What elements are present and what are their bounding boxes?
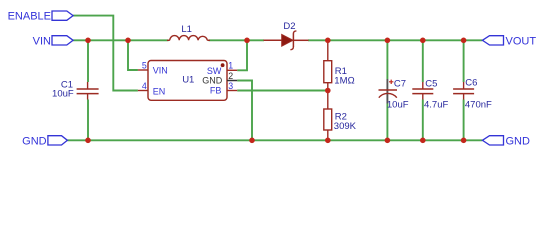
junction GND-C6: [461, 138, 467, 144]
wire C7 branch bottom: [386, 104, 388, 141]
junction GND-pin2: [249, 138, 255, 144]
junction VOUT-C7: [385, 38, 391, 44]
diode D2 (schottky): [264, 21, 309, 50]
IC U1 body: [148, 61, 227, 101]
junction VOUT-C6: [461, 38, 467, 44]
junction VOUT-C5: [420, 38, 426, 44]
junction VIN-pin5: [125, 38, 131, 44]
svg-text:4.7uF: 4.7uF: [424, 100, 448, 111]
port VIN: [33, 35, 73, 47]
capacitor C1: [52, 79, 99, 99]
svg-text:VIN: VIN: [33, 35, 51, 47]
capacitor C6: [453, 78, 492, 111]
svg-text:3: 3: [228, 81, 233, 91]
junction GND-C1: [85, 138, 91, 144]
wire C6 branch: [463, 40, 465, 140]
svg-text:C6: C6: [465, 78, 477, 89]
svg-text:5: 5: [142, 60, 147, 70]
svg-text:VIN: VIN: [153, 65, 168, 75]
wire SW pin1 up to rail: [237, 40, 247, 70]
svg-text:GND: GND: [22, 135, 47, 147]
pin 3 FB: [210, 81, 237, 96]
wire FB pin3 to divider: [237, 90, 328, 92]
inductor L1: [167, 24, 210, 41]
svg-text:VOUT: VOUT: [506, 35, 537, 47]
junction SW node: [244, 38, 250, 44]
wire C1 to gnd rail: [87, 100, 89, 141]
port VOUT: [482, 35, 536, 47]
wire VIN net top: [73, 39, 168, 41]
wire C7 internal dark: [386, 79, 388, 104]
svg-text:1MΩ: 1MΩ: [334, 76, 355, 87]
capacitor C7 polarized: [379, 78, 409, 110]
wire C5 branch: [422, 40, 424, 140]
junction GND-R2: [325, 138, 331, 144]
pin 2 GND: [202, 71, 237, 85]
junction FB node: [325, 88, 331, 94]
wire VIN to pin5: [128, 40, 138, 70]
svg-text:L1: L1: [181, 24, 192, 35]
wire D2 to VOUT rail: [308, 39, 482, 41]
svg-text:FB: FB: [210, 85, 222, 95]
wire ENABLE net: [73, 16, 138, 91]
svg-text:309K: 309K: [334, 121, 357, 132]
resistor R1: [324, 40, 355, 90]
svg-text:GND: GND: [202, 75, 223, 85]
port GND left: [22, 135, 67, 147]
wire L1 to D2: [209, 39, 264, 41]
svg-text:1: 1: [228, 61, 233, 71]
pin 5 VIN: [138, 60, 168, 75]
svg-text:ENABLE: ENABLE: [8, 11, 51, 23]
port ENABLE: [8, 11, 74, 23]
wire C1 branch: [87, 40, 89, 82]
resistor R2: [324, 91, 357, 141]
pin 1 SW: [207, 61, 237, 76]
wire GND pin2 down to rail: [237, 81, 252, 141]
svg-text:C7: C7: [394, 78, 406, 89]
junction GND-C7: [385, 138, 391, 144]
capacitor C5: [412, 78, 448, 110]
junction VOUT-R1: [325, 38, 331, 44]
port GND right: [482, 135, 530, 147]
pin 1 marker dot: [221, 63, 225, 67]
svg-text:GND: GND: [506, 135, 531, 147]
svg-text:C5: C5: [425, 78, 437, 89]
svg-text:EN: EN: [153, 87, 166, 97]
svg-text:2: 2: [228, 71, 233, 81]
svg-text:4: 4: [142, 81, 147, 91]
svg-text:10uF: 10uF: [387, 100, 409, 111]
svg-text:U1: U1: [182, 74, 194, 85]
junction VIN-C1: [85, 38, 91, 44]
svg-text:10uF: 10uF: [52, 89, 74, 100]
svg-text:470nF: 470nF: [465, 100, 492, 111]
wire GND rail bottom: [67, 139, 482, 141]
wire C7 branch top: [386, 40, 388, 79]
pin 4 EN: [138, 81, 165, 97]
svg-text:D2: D2: [283, 21, 295, 32]
junction GND-C5: [420, 138, 426, 144]
